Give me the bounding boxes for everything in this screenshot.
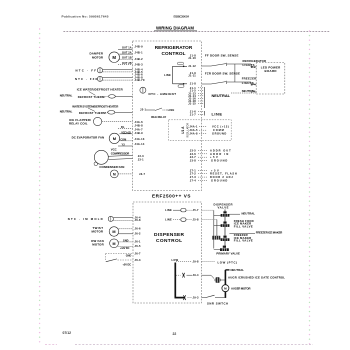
svg-text:J3-6: J3-6 (190, 152, 196, 156)
svg-text:J7-3: J7-3 (190, 175, 196, 179)
svg-text:VCC(+12): VCC(+12) (121, 131, 131, 134)
svg-text:J4A-7: J4A-7 (135, 128, 144, 132)
svg-text:MOTOR: MOTOR (92, 230, 104, 234)
svg-text:E03BC30KS4: E03BC30KS4 (174, 14, 190, 18)
svg-text:J4B-1: J4B-1 (135, 51, 144, 55)
svg-text:OUT 2B: OUT 2B (122, 62, 132, 65)
J7 pin group right (190, 168, 237, 182)
svg-text:NEUTRAL: NEUTRAL (60, 110, 73, 114)
svg-text:J6-6: J6-6 (135, 227, 141, 231)
line bracket inside refrigerator control (164, 62, 187, 87)
svg-text:J7-1: J7-1 (190, 168, 196, 172)
idle relay (146, 108, 175, 119)
freezer lights label (242, 77, 257, 86)
svg-text:J5-7: J5-7 (193, 208, 199, 212)
div connector block (212, 236, 220, 240)
svg-text:FILL VALVE: FILL VALVE (234, 224, 253, 228)
primary valve V4 (214, 246, 240, 256)
bottom page border dashes (45, 344, 313, 346)
left pins lower group (135, 107, 147, 176)
svg-text:RELAY COIL: RELAY COIL (69, 122, 88, 126)
svg-text:+5V: +5V (210, 155, 218, 159)
NTC IM MOLD connector (68, 216, 133, 221)
svg-text:J6-8: J6-8 (135, 218, 141, 222)
dispenser valve label (214, 202, 233, 209)
svg-text:LOW: LOW (172, 258, 179, 262)
svg-text:GND: GND (126, 254, 132, 257)
header publication number (62, 15, 109, 19)
svg-text:NTC - FZR: NTC - FZR (75, 77, 98, 81)
svg-text:J5-8: J5-8 (193, 218, 199, 222)
svg-text:J7-4: J7-4 (251, 84, 256, 87)
svg-text:IDLE RELAY: IDLE RELAY (151, 115, 167, 119)
title WIRING DIAGRAM (154, 25, 197, 31)
svg-text:M: M (113, 136, 117, 141)
svg-text:NEUTRAL: NEUTRAL (212, 93, 231, 98)
svg-text:GND: GND (123, 239, 129, 242)
svg-text:DOOR 2 ADJ: DOOR 2 ADJ (210, 175, 233, 179)
svg-text:NEUTRAL: NEUTRAL (231, 268, 245, 272)
svg-text:FREEZER: FREEZER (242, 77, 257, 81)
svg-text:NEUTRAL: NEUTRAL (242, 211, 256, 215)
svg-text:J3-5: J3-5 (190, 148, 196, 152)
svg-text:REFRIGERATOR: REFRIGERATOR (155, 45, 193, 50)
dispenser line fuse row 2 (165, 218, 199, 222)
svg-text:J4A-13: J4A-13 (135, 137, 145, 141)
freezer fill valve V3 (221, 233, 253, 246)
dispenser valve feed wires (202, 210, 217, 248)
svg-text:GROUND: GROUND (211, 159, 228, 163)
svg-text:FF DOOR SW, SENSE: FF DOOR SW, SENSE (205, 54, 239, 58)
auger gate solenoid (202, 275, 286, 283)
svg-text:J1-10: J1-10 (188, 56, 196, 60)
dispenser valve V1 (214, 210, 255, 223)
svg-text:J4B-3: J4B-3 (135, 63, 144, 67)
svg-text:FREEZER ICE MAKER: FREEZER ICE MAKER (256, 230, 282, 234)
svg-text:MOTOR: MOTOR (92, 55, 104, 59)
svg-text:VCC (+12): VCC (+12) (212, 125, 229, 129)
svg-text:OUT 1B: OUT 1B (122, 57, 132, 60)
svg-text:VALVE: VALVE (218, 206, 229, 210)
svg-text:PRIMARY VALVE: PRIMARY VALVE (216, 252, 240, 256)
neutral bus and J1 pin group (188, 86, 231, 108)
refrigerator control box U1 (133, 41, 202, 191)
svg-text:LINE: LINE (164, 73, 171, 77)
svg-text:SNR SWTCH: SNR SWTCH (207, 302, 228, 306)
svg-text:ICE WATER/DEFROST HEATER: ICE WATER/DEFROST HEATER (77, 88, 124, 92)
svg-text:FILL VALVE: FILL VALVE (234, 239, 253, 243)
svg-text:J4B-9: J4B-9 (135, 45, 144, 49)
svg-text:J1-7: J1-7 (190, 113, 196, 117)
left pins J4B group (135, 45, 145, 83)
ice water defrost heater circuit (60, 88, 133, 99)
svg-text:J6-5: J6-5 (135, 244, 141, 248)
svg-text:J7-2: J7-2 (190, 172, 196, 176)
svg-text:J7-4: J7-4 (190, 179, 196, 183)
svg-text:Publication No: 5995617645: Publication No: 5995617645 (62, 15, 109, 19)
op-amp U1 A regulator box (169, 120, 232, 141)
top dashed rule (63, 31, 330, 33)
dispenser left pins J6 group (135, 216, 141, 263)
svg-text:COMM: COMM (213, 128, 224, 132)
condenser fan motor (99, 165, 132, 178)
svg-text:+12V DC: +12V DC (120, 247, 130, 250)
svg-text:BOARD: BOARD (265, 69, 277, 73)
svg-text:NTC - IM MOLD: NTC - IM MOLD (68, 217, 103, 221)
svg-text:J2-7: J2-7 (139, 172, 145, 176)
fzr door switch circuit (202, 64, 257, 85)
svg-text:AUGER MOTOR: AUGER MOTOR (231, 287, 251, 291)
header model number (174, 14, 190, 18)
NTC FF thermistor connector (76, 68, 133, 73)
left page border dots (39, 28, 40, 342)
led power board (251, 63, 285, 94)
svg-text:J9-8: J9-8 (193, 259, 199, 263)
damper wires OUT 1A/2A/1B/2B (118, 47, 133, 65)
NTC FZR thermistor connector (75, 76, 133, 81)
svg-text:DEFROST THERM.: DEFROST THERM. (78, 95, 106, 99)
low bus inside dispenser control (172, 258, 199, 300)
svg-text:OUT 1A: OUT 1A (122, 47, 132, 50)
svg-text:J2-1: J2-1 (140, 107, 146, 111)
fresh food fill valve V2 (214, 219, 254, 236)
svg-text:GROUND: GROUND (211, 179, 228, 183)
line bus and pins (190, 110, 223, 117)
svg-text:J6-1: J6-1 (135, 240, 141, 244)
svg-text:LOW (PTC): LOW (PTC) (218, 260, 238, 264)
svg-text:ADDR OUT: ADDR OUT (210, 148, 231, 152)
twist motor (92, 226, 134, 236)
footer date (63, 331, 72, 335)
svg-text:J3-1: J3-1 (138, 157, 144, 161)
svg-text:J1-8: J1-8 (190, 81, 196, 85)
svg-text:J6-7: J6-7 (135, 251, 141, 255)
svg-text:WATER SYSTEM/DEFROST HEATER: WATER SYSTEM/DEFROST HEATER (72, 104, 119, 108)
svg-text:J1-12: J1-12 (188, 64, 196, 68)
right pins top group (188, 54, 196, 86)
svg-text:AUGR /CRUSHED ICE GATE CONTROL: AUGR /CRUSHED ICE GATE CONTROL (228, 276, 285, 280)
svg-text:CONDENSER FAN: CONDENSER FAN (99, 165, 124, 169)
svg-text:07/12: 07/12 (63, 331, 72, 335)
svg-text:M: M (113, 172, 116, 176)
damper motor M (90, 52, 120, 63)
svg-text:J4B-8: J4B-8 (135, 123, 144, 127)
svg-text:WIRING DIAGRAM: WIRING DIAGRAM (156, 25, 194, 30)
svg-text:COM: COM (120, 138, 126, 141)
svg-text:M: M (224, 287, 227, 291)
svg-text:OUT 2A: OUT 2A (122, 52, 132, 55)
svg-text:J7-2: J7-2 (251, 66, 256, 69)
compressor (94, 148, 133, 166)
svg-text:NEUTRAL: NEUTRAL (60, 94, 73, 98)
svg-text:FG: FG (121, 126, 125, 129)
water system defrost heater circuit (60, 104, 133, 115)
dispenser paddle switch (106, 254, 134, 267)
svg-text:J4A-6: J4A-6 (135, 120, 144, 124)
svg-text:J4A-1: J4A-1 (189, 125, 198, 129)
svg-text:MOTOR: MOTOR (92, 243, 104, 247)
svg-text:J4A-5: J4A-5 (189, 128, 198, 132)
svg-text:U1 A: U1 A (181, 126, 185, 134)
svg-text:M: M (113, 242, 116, 246)
svg-text:+5V DC: +5V DC (123, 263, 132, 266)
evaporator fan wires FG VCC COM Y3 (118, 126, 133, 147)
NTC ambient sensor (140, 87, 176, 96)
right page border dots (309, 30, 310, 344)
svg-text:J4B-2: J4B-2 (135, 57, 144, 61)
footer page number (173, 332, 177, 336)
svg-text:J4B-9: J4B-9 (135, 131, 144, 135)
svg-text:NEUTRAL: NEUTRAL (242, 89, 256, 93)
svg-text:M: M (112, 55, 116, 60)
low ptc label (202, 260, 238, 264)
dispenser line fuse row 1 (165, 208, 199, 212)
svg-text:M: M (112, 230, 115, 234)
svg-text:LINE: LINE (212, 112, 223, 117)
svg-text:22: 22 (173, 332, 177, 336)
svg-text:J1-11: J1-11 (188, 73, 196, 77)
svg-text:CONTROL: CONTROL (156, 238, 182, 244)
svg-text:LINE: LINE (165, 218, 172, 222)
svg-text:NTC - AMBIENT: NTC - AMBIENT (149, 92, 177, 96)
svg-text:J9-3: J9-3 (193, 295, 199, 299)
svg-text:J1-15: J1-15 (188, 102, 196, 106)
ff door switch circuit (202, 54, 257, 67)
svg-text:ADDR IN: ADDR IN (210, 152, 229, 156)
svg-text:J9-4: J9-4 (193, 273, 199, 277)
neutral wire to led board (231, 89, 256, 93)
neutral feed to auger (225, 268, 244, 285)
svg-text:RESET, FLASH: RESET, FLASH (210, 172, 237, 176)
J3 pin group right (190, 148, 231, 162)
svg-text:COMPRESSOR: COMPRESSOR (111, 151, 130, 155)
svg-text:NTC - FF: NTC - FF (76, 68, 97, 72)
svg-text:DISPENSER: DISPENSER (154, 232, 185, 238)
svg-text:LINE: LINE (168, 108, 175, 112)
svg-text:J6-2: J6-2 (135, 232, 141, 236)
dw fan motor (91, 239, 133, 250)
svg-text:J4B-7C: J4B-7C (135, 78, 145, 82)
svg-text:+5V: +5V (211, 168, 219, 172)
svg-text:J3-7: J3-7 (190, 155, 196, 159)
auger motor (222, 285, 251, 298)
svg-text:LINE: LINE (165, 208, 172, 212)
dc evaporator fan motor (72, 133, 120, 143)
svg-text:J6-3: J6-3 (135, 258, 141, 262)
freezer ice maker line (229, 230, 282, 234)
svg-text:J3-8: J3-8 (190, 159, 196, 163)
svg-text:DEFROST THERM.: DEFROST THERM. (79, 111, 107, 115)
svg-text:ERF2500++ VS: ERF2500++ VS (152, 194, 191, 199)
svg-text:J4A-8: J4A-8 (189, 131, 198, 135)
snr switch (202, 295, 229, 305)
dispenser control box (133, 202, 202, 303)
svg-text:CONTROL: CONTROL (162, 51, 186, 56)
svg-text:J4A-14: J4A-14 (135, 142, 145, 146)
svg-text:DC EVAPORATOR FAN: DC EVAPORATOR FAN (72, 135, 105, 139)
refrigerator lights label (243, 59, 267, 67)
svg-text:GROUND: GROUND (212, 132, 227, 136)
ice flapper relay coil (69, 117, 133, 125)
ERF2500 heading (152, 194, 191, 199)
